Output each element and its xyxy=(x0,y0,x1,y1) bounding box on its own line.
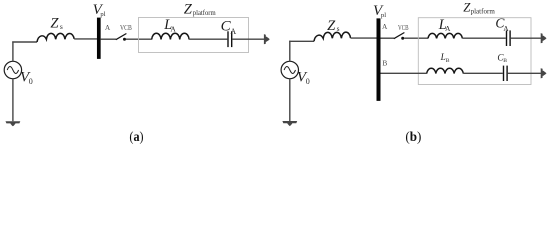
svg-text:B: B xyxy=(382,59,387,68)
wire (b): busbar to inductor LB xyxy=(381,72,427,74)
switch VCB (a): blade xyxy=(116,34,127,40)
capacitor CA (b) xyxy=(507,30,511,46)
svg-text:B: B xyxy=(503,58,507,64)
ground (a) xyxy=(5,121,20,126)
output arrow (b) bottom xyxy=(541,68,547,78)
svg-text:0: 0 xyxy=(29,77,33,86)
inductor Zs (b) xyxy=(314,32,351,41)
wire (b): LA to capacitor CA xyxy=(462,37,505,39)
svg-text:A: A xyxy=(105,23,111,32)
box Zplatform (a) xyxy=(139,18,249,53)
label Zs (b) xyxy=(327,18,340,34)
label CB (b) xyxy=(497,53,507,65)
wire (b): LB to capacitor CB xyxy=(463,72,503,74)
svg-text:A: A xyxy=(503,24,509,33)
svg-text:Z: Z xyxy=(50,16,59,32)
wire (b): inductor to busbar xyxy=(351,37,377,39)
wire (b): CB to output arrow (bottom) xyxy=(508,72,542,74)
svg-text:(a): (a) xyxy=(129,130,143,145)
wire (b): source down to ground xyxy=(289,79,291,121)
svg-text:(b): (b) xyxy=(405,130,421,145)
output arrow (b) top xyxy=(541,33,547,43)
wire (a): CA to output arrow xyxy=(232,38,264,40)
label CA (a) xyxy=(221,19,237,36)
AC source V0 (b) xyxy=(281,61,298,78)
label Zs (a) xyxy=(50,16,63,32)
wire (a): LA to capacitor CA xyxy=(189,38,227,40)
svg-text:0: 0 xyxy=(306,77,310,86)
label V0 (a) xyxy=(20,69,33,86)
svg-text:A: A xyxy=(445,24,451,33)
output arrow (a) xyxy=(264,34,270,44)
wire (b): top corner down to source xyxy=(289,41,291,62)
box Zplatform (b) xyxy=(418,18,531,85)
inductor LA (a) xyxy=(152,33,189,39)
label Vpl (a) xyxy=(93,2,106,18)
label Vpl (b) xyxy=(373,3,386,19)
wire (b): corner to inductor Zs xyxy=(289,40,314,42)
AC source V0 (a) xyxy=(4,61,21,78)
svg-text:platform: platform xyxy=(471,7,496,15)
svg-text:pl: pl xyxy=(100,11,105,18)
label LA (a) xyxy=(163,17,176,34)
wire (b): switch to inductor LA xyxy=(404,37,428,39)
label Zplatform (b) xyxy=(463,0,495,15)
wire (a): switch to inductor LA xyxy=(126,38,152,40)
wire (b): CA to output arrow (top) xyxy=(511,37,542,39)
svg-text:A: A xyxy=(382,22,388,31)
inductor LB (b) xyxy=(427,68,464,73)
inductor LA (b) xyxy=(428,33,462,38)
busbar Vpl (a) xyxy=(97,18,101,59)
busbar Vpl (b) xyxy=(377,18,381,101)
svg-text:platform: platform xyxy=(193,9,216,17)
ground (b) xyxy=(282,121,297,126)
label Zplatform (a) xyxy=(184,1,216,17)
svg-text:Z: Z xyxy=(327,18,336,34)
svg-text:s: s xyxy=(60,22,63,31)
svg-text:A: A xyxy=(230,27,236,36)
wire (a): corner to inductor Zs xyxy=(12,41,37,43)
svg-text:pl: pl xyxy=(381,12,386,19)
svg-text:s: s xyxy=(337,24,340,33)
label LA (b) xyxy=(438,17,451,33)
switch VCB (a): contact xyxy=(123,38,126,41)
wire (a): busbar to switch xyxy=(101,38,116,40)
label V0 (b) xyxy=(297,69,310,86)
label CA (b) xyxy=(495,15,509,33)
wire (b): busbar to switch xyxy=(381,37,395,39)
capacitor CB (b) xyxy=(504,66,508,81)
switch VCB (b): blade xyxy=(394,33,405,39)
wire (a): top corner down to source xyxy=(12,41,14,61)
capacitor CA (a) xyxy=(228,31,232,47)
svg-text:A: A xyxy=(170,24,176,33)
label LB (b) xyxy=(440,52,450,64)
svg-text:B: B xyxy=(446,58,450,64)
svg-text:Z: Z xyxy=(184,1,193,17)
wire (a): source down to ground xyxy=(12,79,14,122)
svg-text:VCB: VCB xyxy=(120,24,132,32)
inductor Zs (a) xyxy=(37,33,74,42)
svg-text:VCB: VCB xyxy=(398,24,409,32)
wire (a): inductor to busbar xyxy=(74,38,97,40)
switch VCB (b): contact xyxy=(401,37,404,40)
